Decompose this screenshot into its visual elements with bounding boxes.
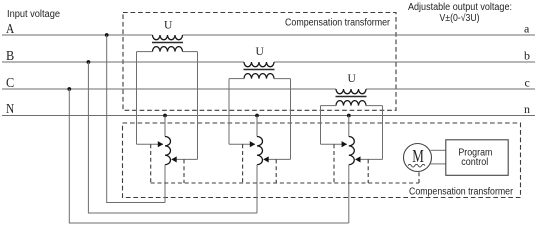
wire: loop from tap C down, across and up to variac 3 bottom	[69, 89, 349, 223]
wire: loop from tap B down, across and up to variac 2 bottom	[88, 62, 257, 213]
variac TR2 winding	[257, 137, 263, 165]
wire: U3 secondary right stub	[366, 105, 383, 107]
svg-text:N: N	[6, 102, 14, 117]
svg-text:U: U	[256, 46, 265, 58]
svg-text:U: U	[348, 73, 357, 85]
wire: U2 secondary left lead down to variac 2 upper wiper	[228, 79, 230, 145]
wire: variac 1 lower wiper arm	[172, 158, 198, 160]
svg-text:M: M	[412, 146, 424, 166]
wire: variac 2 lower wiper arm	[264, 158, 291, 160]
wire: phase line C to c (right of transformer U3)	[366, 88, 535, 90]
transformer U1 primary winding	[153, 35, 183, 40]
wire: phase line B (left of transformer U2)	[2, 61, 244, 63]
mechanical linkage: dashed drop from variac 2 upper wiper	[242, 144, 244, 183]
transformer U3 primary winding	[336, 89, 366, 94]
mechanical linkage: dashed drop from variac 2 lower wiper	[275, 159, 277, 183]
mechanical linkage: dashed drop from variac 3 lower wiper	[367, 159, 369, 183]
wire: variac 2 bottom lead down	[256, 165, 258, 213]
wire: variac 2 upper wiper arm	[229, 143, 255, 145]
wire: phase line A (left of transformer U1)	[2, 34, 153, 36]
program control box	[446, 140, 508, 176]
svg-text:Compensation transformer: Compensation transformer	[285, 17, 391, 28]
transformer U2 core	[244, 69, 275, 71]
wire: motor to program control (upper)	[431, 149, 446, 151]
svg-text:c: c	[525, 75, 530, 89]
variac TR3 winding	[349, 137, 355, 165]
wire: U2 secondary right lead down to variac 2 lower wiper	[290, 79, 292, 160]
mechanical linkage: dashed shaft to motor	[151, 182, 419, 184]
motor M circle	[404, 144, 432, 172]
svg-text:Adjustable output voltage:: Adjustable output voltage:	[408, 2, 512, 13]
wire: variac 2 top lead from N	[256, 116, 258, 137]
svg-text:control: control	[461, 157, 488, 168]
arrow: variac 1 lower wiper	[171, 156, 176, 162]
wire: variac 3 bottom lead down	[348, 165, 350, 223]
mechanical linkage: dashed stub up to motor	[418, 172, 420, 184]
wire: variac 1 bottom lead down	[164, 165, 166, 203]
arrow: variac 1 upper wiper	[158, 141, 163, 147]
svg-text:Input voltage: Input voltage	[7, 9, 60, 20]
transformer U1 core	[152, 42, 183, 44]
node: tap on N for variac 3	[347, 114, 351, 118]
wire: variac 3 lower wiper arm	[356, 158, 383, 160]
node: tap on N for variac 2	[255, 114, 259, 118]
variac TR1 winding	[165, 137, 171, 165]
wire: variac 1 top lead from N	[164, 116, 166, 137]
wire: U1 secondary left lead down to variac 1 upper wiper	[136, 52, 138, 145]
wire: phase line C (left of transformer U3)	[2, 88, 336, 90]
wire: U3 secondary left stub	[321, 105, 337, 107]
svg-text:n: n	[524, 102, 530, 116]
arrow: variac 2 lower wiper	[263, 156, 268, 162]
compensation transformer dashed box (upper)	[123, 13, 396, 111]
node: tap on N for variac 1	[163, 114, 167, 118]
wire: variac 3 top lead from N	[348, 116, 350, 137]
wire: variac 3 upper wiper arm	[321, 143, 347, 145]
arrow: variac 3 upper wiper	[342, 141, 347, 147]
wire: phase line A to a (right of transformer U1)	[183, 34, 536, 36]
mechanical linkage: dashed drop from variac 1 upper wiper	[150, 144, 152, 183]
svg-text:C: C	[6, 76, 14, 91]
svg-text:b: b	[524, 48, 530, 62]
node: tap on B	[87, 60, 91, 64]
svg-text:A: A	[6, 22, 15, 37]
transformer U2 secondary winding	[244, 74, 274, 79]
svg-text:V±(0-√3U): V±(0-√3U)	[440, 12, 480, 24]
svg-text:a: a	[524, 21, 530, 35]
mechanical linkage: dashed drop from variac 1 lower wiper	[183, 159, 185, 183]
node: tap on C	[67, 87, 71, 91]
wire: U1 secondary right stub	[183, 51, 198, 53]
wire: U3 secondary right lead down to variac 3 lower wiper	[382, 106, 384, 160]
wire: phase line B to b (right of transformer U2)	[274, 61, 535, 63]
svg-text:B: B	[6, 49, 14, 64]
transformer U1 secondary winding	[153, 47, 183, 52]
svg-text:Compensation transformer: Compensation transformer	[409, 186, 514, 197]
wire: U1 secondary right lead down to variac 1 lower wiper	[197, 52, 199, 160]
motor wave symbol	[408, 164, 425, 167]
variac assembly dashed box (lower)	[123, 123, 521, 198]
wire: U2 secondary right stub	[274, 78, 291, 80]
wire: U1 secondary left stub	[137, 51, 153, 53]
transformer U2 primary winding	[244, 62, 274, 67]
wire: variac 1 upper wiper arm	[137, 143, 164, 145]
svg-text:U: U	[164, 19, 173, 31]
wire: motor to program control (lower)	[431, 163, 446, 165]
wire: neutral line N to n	[2, 115, 535, 117]
arrow: variac 3 lower wiper	[355, 156, 360, 162]
transformer U3 core	[336, 96, 367, 98]
transformer U3 secondary winding	[336, 101, 366, 106]
wire: U2 secondary left stub	[229, 78, 244, 80]
arrow: variac 2 upper wiper	[250, 141, 255, 147]
wire: U3 secondary left lead down to variac 3 upper wiper	[320, 106, 322, 145]
wire: loop from tap A down, across and up to variac 1 bottom	[107, 35, 165, 203]
node: tap on A	[105, 33, 109, 37]
mechanical linkage: dashed drop from variac 3 upper wiper	[333, 144, 335, 183]
